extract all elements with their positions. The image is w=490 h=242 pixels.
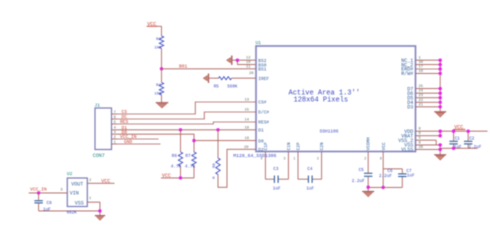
svg-text:C2: C2 bbox=[469, 137, 475, 142]
svg-text:BS1: BS1 bbox=[258, 67, 266, 73]
capacitor C7 labels (overlapping C6) bbox=[406, 169, 415, 179]
svg-text:C1: C1 bbox=[455, 137, 461, 142]
svg-text:R6: R6 bbox=[172, 154, 178, 159]
svg-text:6: 6 bbox=[380, 156, 382, 160]
svg-text:R5: R5 bbox=[214, 85, 220, 89]
svg-text:2: 2 bbox=[89, 179, 92, 183]
wire net GND stub bbox=[117, 143, 161, 145]
resistor R2 bbox=[154, 36, 163, 50]
wire VLSS bbox=[416, 148, 441, 150]
svg-text:C1N: C1N bbox=[287, 142, 292, 150]
wire R5 to IREF pin bbox=[232, 77, 257, 79]
capacitor C3 bbox=[265, 152, 288, 192]
wire net RES (J1.5 to RES#) bbox=[117, 122, 256, 124]
wire R8 to D2 pin bbox=[218, 149, 256, 187]
ground (under C5) bbox=[362, 192, 374, 197]
svg-text:10K: 10K bbox=[154, 46, 162, 50]
junction BS2/BS0 bbox=[236, 59, 239, 62]
svg-text:5: 5 bbox=[114, 121, 116, 125]
svg-text:128x64 Pixels: 128x64 Pixels bbox=[294, 97, 349, 105]
net label D0 bbox=[122, 129, 128, 135]
junction D1/R8 bbox=[216, 128, 219, 131]
svg-text:CON7: CON7 bbox=[93, 153, 105, 159]
U1 inner text active area bbox=[289, 90, 360, 105]
resistor R8 bbox=[212, 130, 220, 181]
wire VDD to VCC rail bbox=[416, 130, 488, 132]
svg-text:3: 3 bbox=[284, 156, 286, 160]
svg-text:11: 11 bbox=[246, 65, 251, 69]
svg-text:4.7K: 4.7K bbox=[185, 164, 196, 169]
net label D1 bbox=[122, 125, 128, 131]
wire VSS to ground node bbox=[87, 197, 100, 215]
capacitor C1 bbox=[449, 131, 462, 150]
svg-text:C3: C3 bbox=[273, 167, 279, 172]
resistor R4 bbox=[154, 69, 163, 97]
power label VCC (U2 output) bbox=[101, 179, 110, 185]
wire net CS (J1.7 to CS#) bbox=[117, 102, 256, 114]
junction C1 bottom bbox=[452, 147, 455, 150]
junctions VSS/VLSS bbox=[439, 143, 442, 151]
capacitor C2 bbox=[464, 131, 482, 150]
junction C5 bottom bbox=[367, 186, 370, 189]
net label CS bbox=[122, 109, 128, 115]
J1 pin stubs and numbers bbox=[112, 111, 118, 145]
net label VCC_IN (U2) bbox=[30, 186, 47, 192]
wire net B01 to pin BS1 bbox=[162, 68, 257, 70]
op-amp U1 (SH1106 OLED controller) body bbox=[256, 40, 416, 151]
resistor R6 bbox=[171, 130, 183, 178]
svg-text:D3: D3 bbox=[407, 105, 413, 111]
U1 right pin numbers bbox=[419, 57, 424, 150]
svg-text:662K: 662K bbox=[67, 212, 78, 216]
wire R2 to node B01 bbox=[161, 49, 163, 69]
svg-text:VCC: VCC bbox=[101, 179, 110, 185]
svg-text:2: 2 bbox=[364, 156, 366, 160]
U1 bottom pin numbers bbox=[261, 156, 382, 160]
svg-text:SSH1106: SSH1106 bbox=[320, 128, 339, 134]
svg-text:7: 7 bbox=[114, 111, 116, 115]
U1 left pin numbers bbox=[244, 57, 254, 150]
svg-text:1uF: 1uF bbox=[306, 187, 314, 192]
capacitor C4 bbox=[298, 152, 322, 192]
ground (right bottom) bbox=[434, 155, 446, 160]
ground (sideways, IREF) bbox=[203, 74, 208, 83]
svg-text:VLSS: VLSS bbox=[401, 147, 413, 153]
svg-text:2.2uF: 2.2uF bbox=[352, 179, 365, 184]
wire VBAT bbox=[416, 131, 441, 136]
svg-text:J1: J1 bbox=[95, 102, 101, 108]
capacitor C5 bbox=[352, 152, 373, 192]
svg-text:C8: C8 bbox=[47, 201, 53, 206]
junction ground node bbox=[98, 209, 101, 212]
svg-text:0: 0 bbox=[212, 177, 215, 181]
net label DC bbox=[122, 114, 128, 120]
wire VSS_2 bbox=[416, 140, 437, 145]
svg-text:4: 4 bbox=[261, 156, 263, 160]
resistor R5 bbox=[214, 77, 238, 90]
svg-text:GND: GND bbox=[124, 139, 133, 145]
svg-text:IREF: IREF bbox=[258, 76, 269, 82]
svg-text:D/C#: D/C# bbox=[258, 110, 269, 116]
junction C2 top bbox=[467, 130, 470, 133]
svg-text:1uF: 1uF bbox=[273, 187, 281, 192]
node B01 junction bbox=[160, 67, 163, 70]
power symbol VCC (top left) bbox=[147, 21, 162, 27]
svg-text:D1: D1 bbox=[258, 128, 264, 134]
svg-text:C5: C5 bbox=[359, 168, 365, 173]
svg-text:C2N: C2N bbox=[320, 142, 325, 150]
svg-text:6: 6 bbox=[114, 116, 116, 120]
svg-text:2: 2 bbox=[317, 156, 319, 160]
wire ground to BS2 bbox=[232, 59, 256, 61]
U2 pin names bbox=[70, 181, 84, 206]
wire net DC (J1.6 to D/C#) bbox=[117, 112, 256, 119]
svg-text:CS#: CS# bbox=[258, 100, 266, 106]
bus vertical (right) bbox=[439, 60, 441, 112]
wire net VCC_IN to VIN bbox=[29, 189, 68, 193]
svg-text:1uF: 1uF bbox=[43, 207, 51, 212]
svg-text:3: 3 bbox=[114, 131, 116, 135]
svg-text:VIN: VIN bbox=[70, 191, 79, 197]
svg-text:M128_64_SSD1306: M128_64_SSD1306 bbox=[233, 153, 276, 159]
svg-text:VSS: VSS bbox=[75, 201, 84, 207]
U1 inner text part name bbox=[320, 128, 339, 134]
wire VSS bbox=[416, 144, 441, 146]
wire R4 to ground bbox=[161, 95, 163, 103]
ground (below R4) bbox=[156, 103, 169, 108]
wire cap top rail bbox=[383, 168, 402, 170]
net label VCC_IN bbox=[120, 134, 137, 140]
junction C1 top bbox=[452, 130, 455, 133]
svg-text:2.2uF: 2.2uF bbox=[469, 145, 482, 150]
svg-text:VCC: VCC bbox=[162, 173, 171, 179]
wire VOUT to VCC bbox=[87, 179, 114, 183]
ground (U2) bbox=[95, 216, 105, 221]
svg-text:12: 12 bbox=[246, 57, 251, 61]
wire cap bottom rail (C5-C6) bbox=[368, 186, 402, 188]
U1 part value label bbox=[233, 153, 276, 159]
svg-text:C1P: C1P bbox=[264, 142, 269, 150]
svg-text:R7: R7 bbox=[185, 154, 191, 159]
svg-text:C4: C4 bbox=[307, 167, 313, 172]
svg-text:1uF: 1uF bbox=[407, 174, 415, 179]
wire VSS group to ground bbox=[439, 145, 441, 155]
wire net VCC_IN stub bbox=[117, 138, 159, 140]
svg-text:1: 1 bbox=[89, 197, 92, 201]
wire net D1 (J1.4 to D1) bbox=[117, 129, 256, 131]
junctions on right bus bbox=[439, 59, 442, 109]
resistor R7 bbox=[185, 141, 196, 178]
net label RES bbox=[120, 119, 129, 125]
U1 right pin names bbox=[398, 58, 413, 153]
svg-text:VCC: VCC bbox=[382, 142, 387, 150]
svg-text:2.2uF: 2.2uF bbox=[379, 174, 392, 179]
svg-text:RES#: RES# bbox=[258, 120, 269, 126]
svg-text:VCOMH: VCOMH bbox=[367, 137, 372, 151]
svg-text:28: 28 bbox=[249, 72, 254, 76]
junction VCC pin bottom bbox=[382, 186, 385, 189]
svg-text:VOUT: VOUT bbox=[71, 181, 83, 187]
junction VCC_IN/C8 bbox=[37, 191, 40, 194]
wire net D0 (J1.3 to D0) bbox=[117, 134, 256, 140]
U1 bottom pin names (rotated) bbox=[264, 137, 387, 151]
junction VDD/VBAT bbox=[439, 130, 442, 138]
power label VCC (right) bbox=[453, 125, 465, 131]
svg-text:1: 1 bbox=[293, 156, 295, 160]
regulator U2 body bbox=[67, 171, 87, 206]
capacitor C8 bbox=[34, 193, 52, 212]
net label GND bbox=[124, 139, 133, 145]
capacitor C6 bbox=[379, 169, 407, 188]
svg-text:3: 3 bbox=[60, 189, 63, 193]
junction R6/VCC rail bbox=[179, 176, 182, 179]
U1 left pin names bbox=[258, 58, 269, 153]
svg-text:R8: R8 bbox=[213, 163, 217, 168]
junction D0/R7 bbox=[192, 139, 195, 142]
svg-text:10K: 10K bbox=[154, 93, 162, 97]
svg-text:B01: B01 bbox=[179, 64, 188, 70]
svg-text:R4: R4 bbox=[156, 84, 161, 88]
wire junction down to BS0 bbox=[237, 60, 256, 64]
svg-text:U1: U1 bbox=[256, 40, 262, 46]
U2 part value 662K bbox=[67, 212, 78, 216]
junction D1/R6 bbox=[179, 128, 182, 131]
wires U1 right pins to bus bbox=[416, 60, 441, 107]
svg-text:4.7K: 4.7K bbox=[171, 164, 182, 169]
wire VCC to R2 bbox=[161, 26, 163, 36]
wire cap bottom rail bbox=[440, 147, 477, 149]
svg-text:U2: U2 bbox=[67, 171, 73, 177]
svg-text:560K: 560K bbox=[227, 85, 238, 89]
connector J1 body bbox=[93, 102, 112, 159]
svg-text:R/W#: R/W# bbox=[401, 71, 413, 77]
ground (sideways, BS2/BS0) bbox=[226, 56, 231, 65]
net label B01 bbox=[179, 64, 188, 70]
wire ground to R5 bbox=[209, 77, 219, 79]
wire C8 bottom to ground node bbox=[39, 210, 100, 212]
ground (right bus) bbox=[434, 112, 446, 117]
svg-text:RES: RES bbox=[120, 119, 129, 125]
svg-text:R2: R2 bbox=[156, 38, 161, 42]
svg-text:2: 2 bbox=[114, 136, 116, 140]
power rail VCC (below R6/R7) bbox=[161, 173, 194, 179]
svg-text:C2P: C2P bbox=[297, 142, 302, 150]
wire VCC pin down bbox=[382, 152, 384, 188]
